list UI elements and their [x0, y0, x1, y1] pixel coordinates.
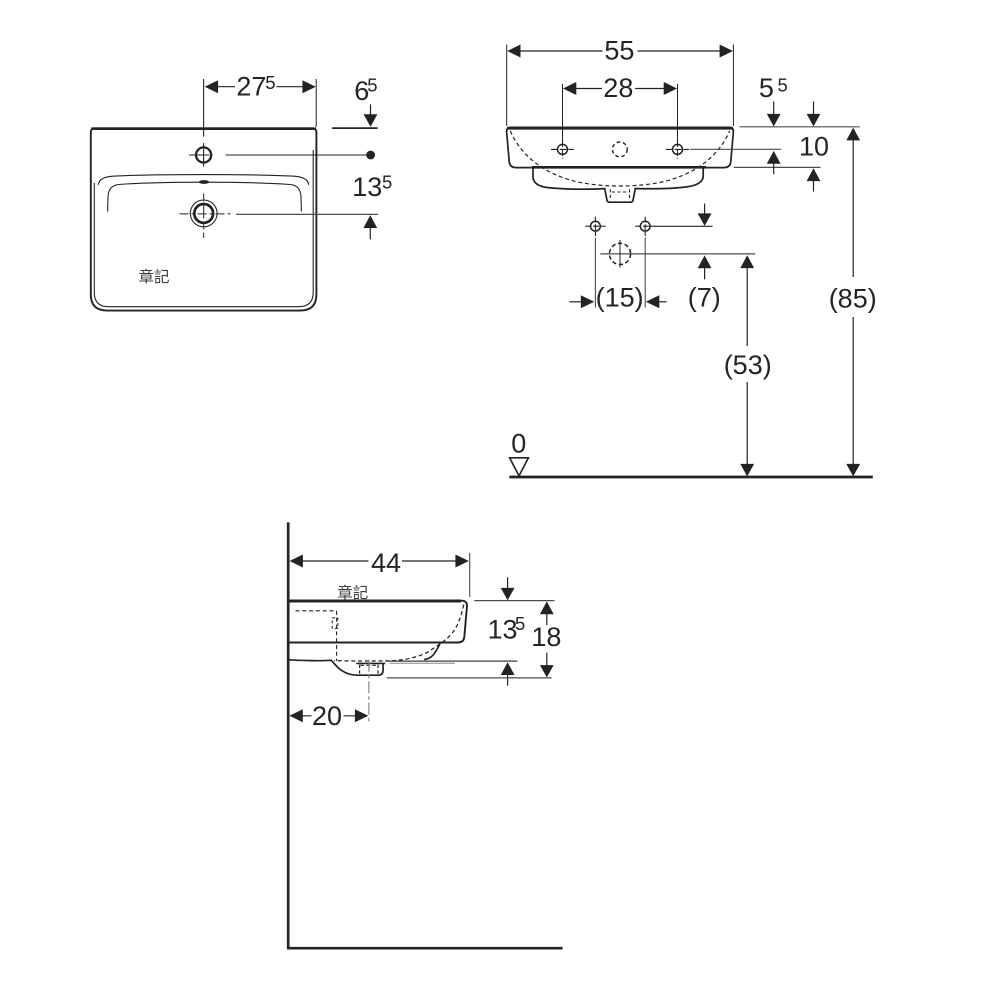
drain hidden dashes [360, 664, 377, 666]
dim 5.5 down arrow [773, 102, 775, 115]
dim 18 down arrow [546, 653, 548, 666]
bowl lower outline [533, 168, 703, 202]
dim 55 line [521, 50, 720, 52]
dim 7 down arrow [704, 204, 706, 215]
leader line faucet to reference dot [226, 154, 367, 156]
dim 20 line [302, 715, 355, 717]
dim 20 right arrow [355, 709, 368, 722]
dim 28 extension lines [563, 84, 678, 141]
drain vertical centerline dashes [203, 194, 205, 239]
dim 6.5 reference line at rim level [332, 127, 378, 129]
fixing hole left cross [591, 221, 601, 231]
underside outline with drain flange [288, 660, 383, 676]
svg-text:55: 55 [604, 36, 634, 66]
svg-text:28: 28 [603, 73, 633, 103]
center overflow dashed circle [612, 142, 627, 157]
svg-text:44: 44 [371, 548, 401, 578]
drain flange top edge [356, 662, 385, 664]
dim 27.5 line [217, 86, 304, 88]
faucet hole left tick [189, 154, 210, 156]
svg-text:(53): (53) [724, 350, 772, 380]
svg-text:5: 5 [265, 72, 275, 93]
bowl hidden dashed profile [334, 605, 464, 662]
dim 44 left arrow [290, 555, 303, 568]
dim 20 left arrow [289, 709, 302, 722]
dim 13.5 up arrow [501, 662, 515, 675]
svg-text:20: 20 [312, 701, 342, 731]
dim 55 left arrow [507, 45, 520, 58]
dim 55 extension lines [507, 45, 734, 127]
drain outer circle [190, 200, 217, 227]
floor line side [287, 947, 563, 950]
basin body outline [288, 601, 467, 643]
dim 55 right arrow [720, 45, 733, 58]
basin top edge thick [288, 600, 461, 603]
dim 53 line with arrows [746, 268, 748, 465]
dim 10 up arrow [807, 168, 821, 181]
dim 15 extension lines [595, 238, 645, 308]
ref line hole level [690, 148, 781, 150]
ref line fixing hole level [655, 225, 713, 227]
ref line top edge level [740, 126, 860, 128]
svg-text:13: 13 [352, 172, 382, 202]
wall line [287, 522, 290, 948]
svg-text:(7): (7) [688, 283, 721, 313]
back plate top edge thick [507, 127, 733, 130]
right faucet mounting hole [673, 144, 683, 154]
siphon vertical centerline [619, 240, 621, 268]
fixing hole right cross [640, 221, 650, 231]
underside curve right of drain [424, 643, 440, 660]
ref line underside level [387, 660, 518, 662]
svg-text:章記: 章記 [139, 268, 170, 286]
overflow hidden dashes horizontal [296, 610, 337, 612]
dim 5.5 up arrow [767, 151, 781, 164]
dim 44 extension line [469, 553, 471, 597]
svg-text:章記: 章記 [337, 584, 368, 602]
trap inner dashed detail [610, 189, 629, 199]
svg-text:5: 5 [759, 73, 774, 103]
faucet hole [196, 147, 211, 162]
datum triangle [510, 458, 529, 476]
svg-text:10: 10 [799, 131, 829, 161]
dim 28 line [576, 88, 664, 90]
basin inner offset line [94, 150, 313, 307]
drain inner circle [194, 204, 213, 223]
drain centerline grey [368, 660, 370, 723]
left faucet mounting hole [558, 144, 568, 154]
dim 28 right arrow [664, 82, 677, 95]
dim 27.5 extension line right [315, 79, 317, 127]
dim 28 left arrow [563, 82, 576, 95]
svg-text:13: 13 [488, 615, 518, 645]
svg-text:5: 5 [367, 75, 377, 96]
dim 13.5 down arrow [507, 577, 509, 589]
drain horizontal centerline dashes [180, 213, 233, 215]
dim 85 line with arrows [852, 140, 854, 465]
siphon dashed circle [609, 243, 630, 264]
svg-text:5: 5 [382, 172, 392, 193]
ref line flange bottom level [387, 677, 552, 679]
overflow slot [199, 180, 209, 184]
svg-text:(15): (15) [596, 283, 644, 313]
faucet hole vertical centerline [203, 79, 205, 167]
dim 44 right arrow [455, 555, 468, 568]
dim 27.5 left arrow [205, 80, 218, 93]
dim 15 left arrow [570, 301, 582, 303]
svg-text:0: 0 [511, 429, 526, 459]
bowl hidden dashed curve [510, 131, 729, 186]
underside lip edge line [390, 662, 455, 664]
basin rim line B [108, 182, 302, 211]
basin top edge thick [91, 127, 316, 130]
dim 15 right arrow [646, 295, 659, 308]
drain pipe walls [360, 665, 378, 675]
basin rim line A [98, 175, 308, 185]
svg-text:5: 5 [778, 75, 788, 96]
svg-text:5: 5 [515, 613, 525, 634]
basin outer body [91, 128, 317, 310]
siphon horizontal centerline [600, 253, 755, 255]
dim 13.5 up arrow [363, 215, 377, 228]
dim 6.5 down arrow [370, 104, 372, 116]
overflow hidden step rect dashed [332, 618, 338, 628]
svg-text:18: 18 [531, 622, 561, 652]
dim 27.5 right arrow [302, 80, 315, 93]
dim 13.5 reference line at drain level [236, 213, 378, 215]
dim 44 line [303, 560, 456, 562]
svg-text:27: 27 [236, 72, 266, 102]
back plate outline [507, 127, 734, 167]
svg-text:(85): (85) [829, 284, 877, 314]
back plate bottom edge thick [532, 166, 706, 169]
dim 7 up arrow [698, 255, 712, 268]
floor line [509, 476, 873, 479]
ref line basin top level [474, 600, 554, 602]
overflow hidden vertical dashed [336, 611, 338, 661]
dim 10 down arrow [813, 102, 815, 115]
ref line plate bottom level [734, 166, 821, 168]
dim 18 up arrow [540, 601, 554, 614]
reference dot [366, 151, 375, 160]
